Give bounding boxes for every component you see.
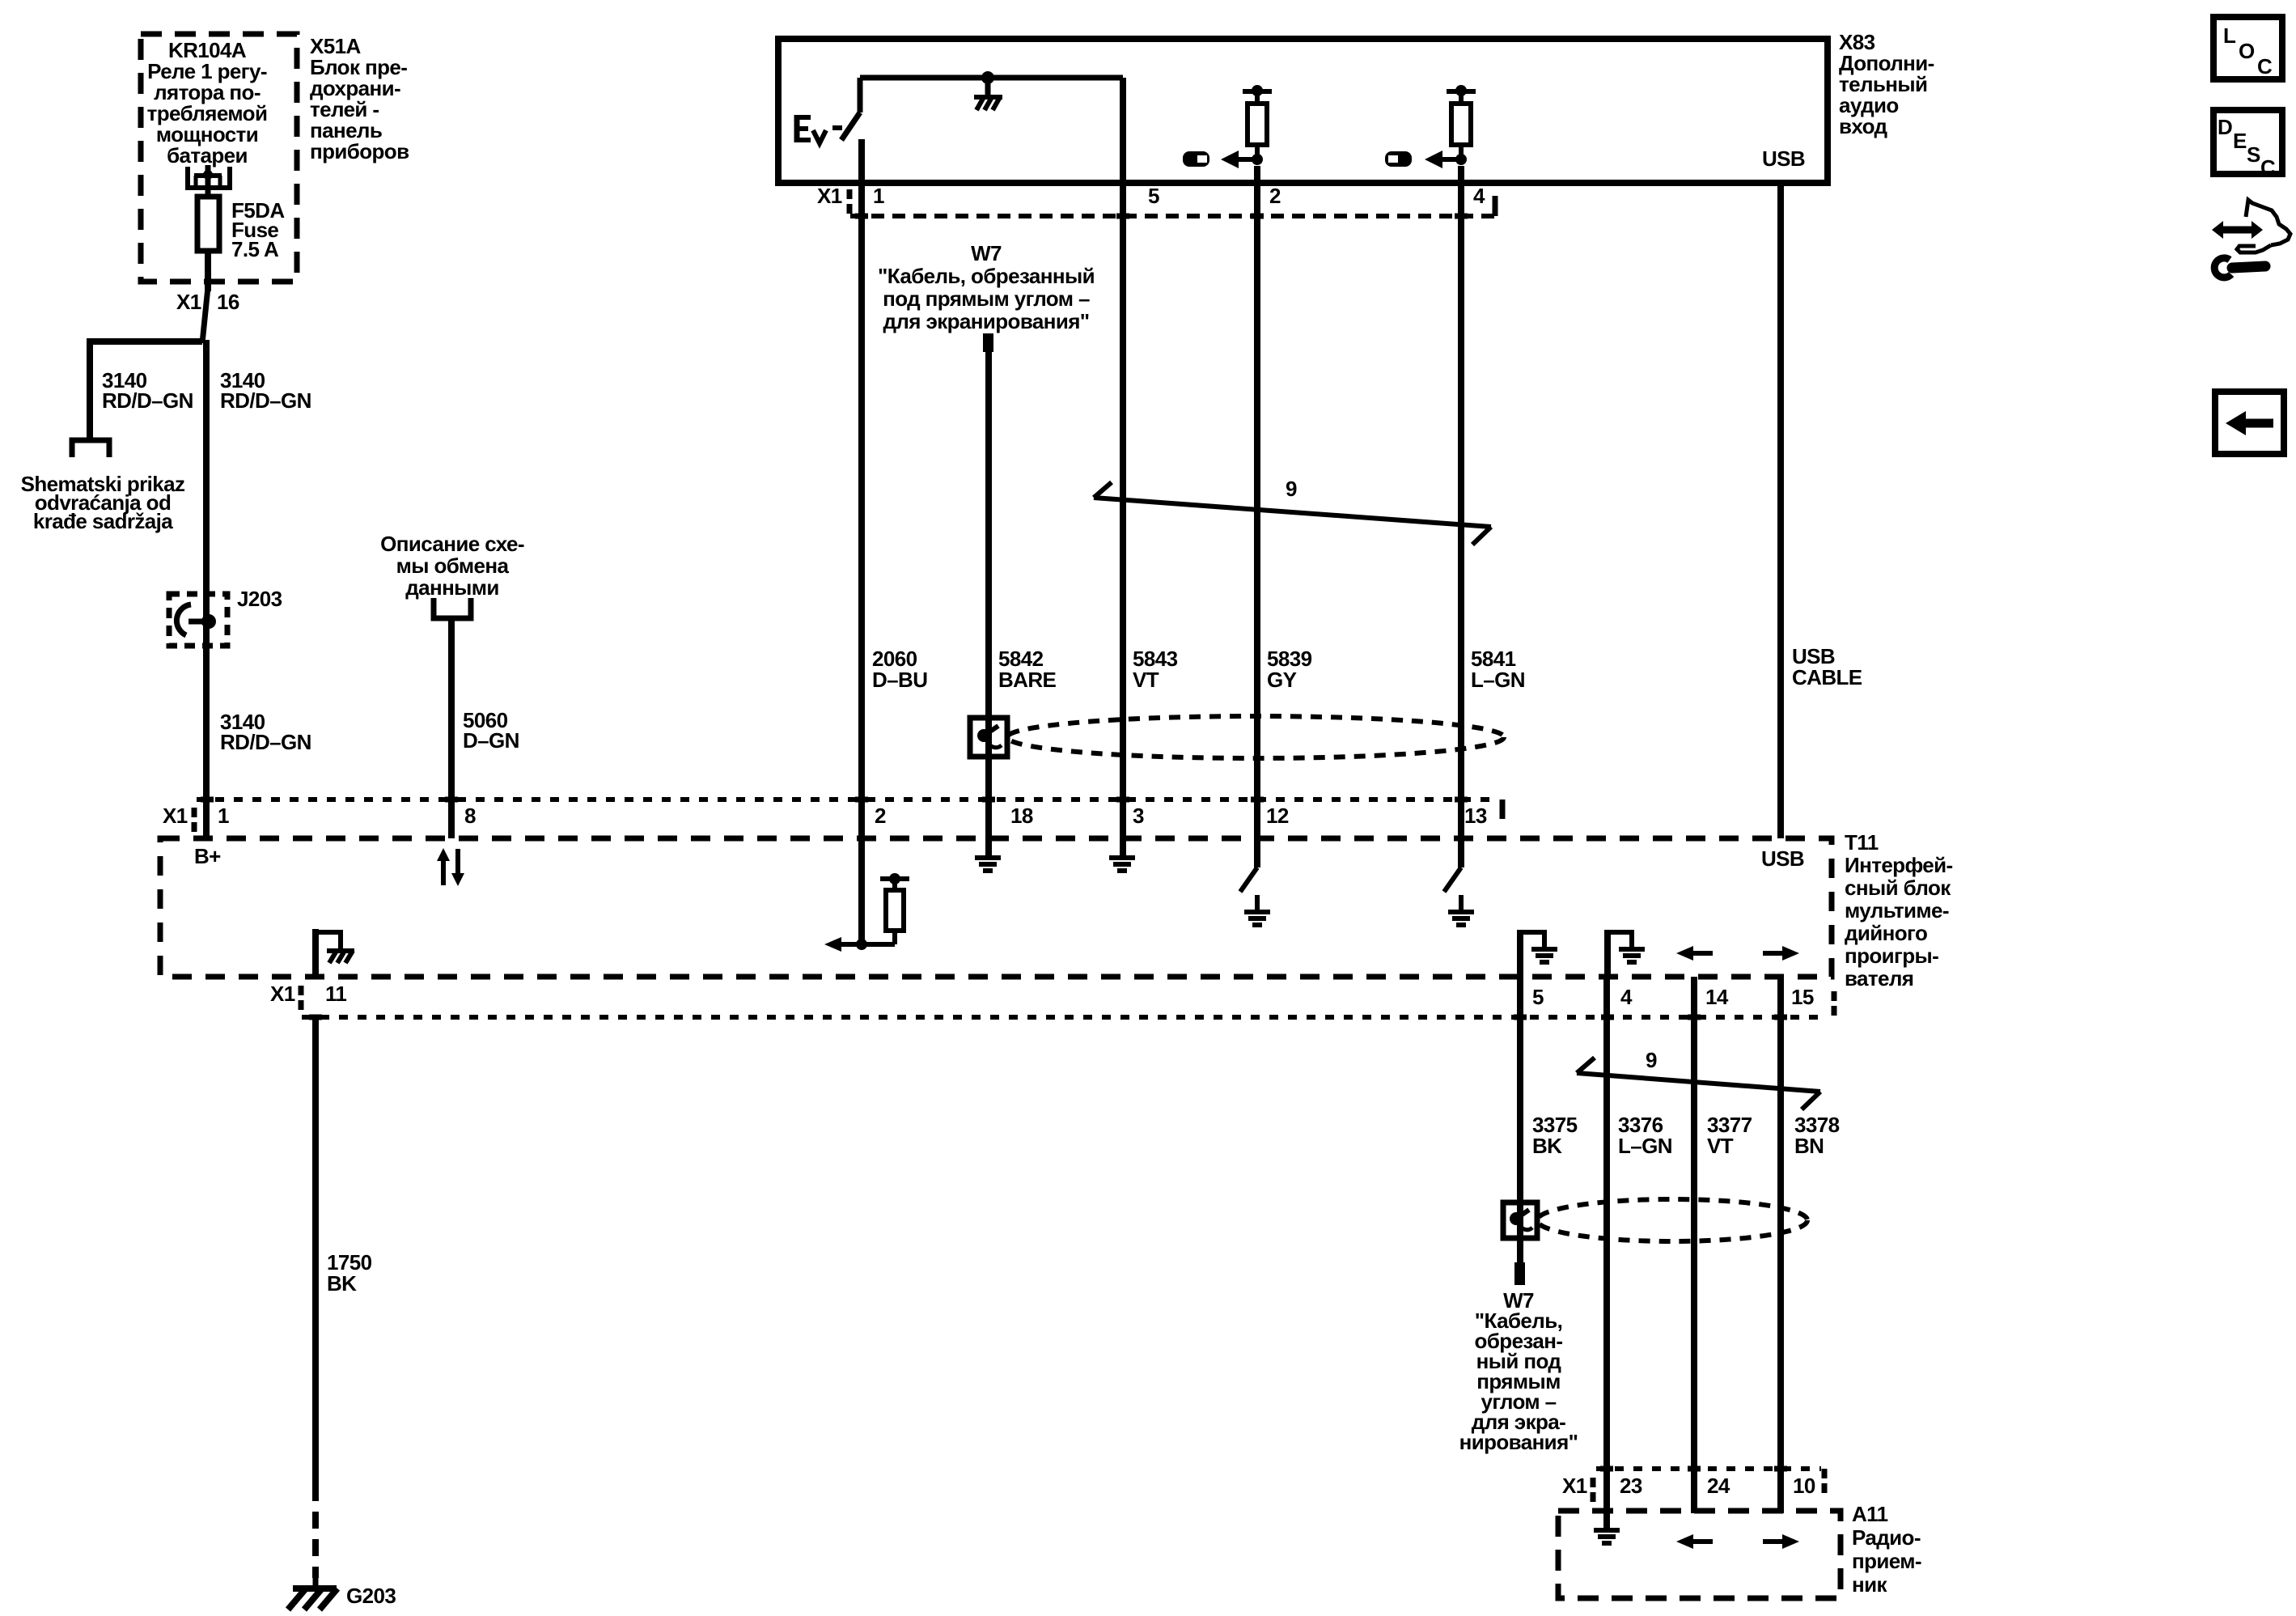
pin 15 label bottom [1791, 985, 1814, 1009]
resistor and output arrow below T11 pin 2 [824, 838, 909, 952]
terminator icon pin 4 [1385, 151, 1412, 167]
label 5843 VT [1133, 647, 1178, 692]
pin 3 label T11 [1133, 804, 1144, 828]
svg-text:CABLE: CABLE [1792, 665, 1862, 689]
svg-text:BK: BK [327, 1271, 357, 1296]
label 5839 GY [1267, 647, 1312, 692]
svg-text:D–BU: D–BU [872, 668, 927, 692]
left arrow inside T11 [1676, 946, 1713, 961]
pin 18 label T11 [1010, 804, 1033, 828]
label USB inside T11 [1761, 846, 1804, 871]
pin 23 label A11 [1620, 1474, 1642, 1498]
svg-text:для экранирования": для экранирования" [883, 309, 1089, 333]
auxiliary audio input X83 box [778, 39, 1828, 183]
label B+ [194, 844, 221, 868]
svg-text:USB: USB [1762, 146, 1805, 171]
svg-text:C: C [2257, 54, 2273, 78]
connector X1 of T11 top dotted line [197, 800, 1502, 819]
svg-text:USB: USB [1761, 846, 1804, 871]
svg-text:вход: вход [1839, 114, 1888, 138]
label 3140 RD/D-GN branch wire [102, 368, 193, 413]
media player interface module T11 dashed box [160, 838, 1832, 977]
label 5842 BARE [998, 647, 1057, 692]
wire 3377 VT (T11 pin14 to A11 pin24) [1691, 977, 1697, 1513]
chassis ground at T11 pin 11 [316, 929, 354, 977]
connector X1 label A11 [1562, 1474, 1593, 1502]
svg-text:4: 4 [1620, 985, 1633, 1009]
ground at A11 pin 23 [1594, 1513, 1620, 1543]
svg-text:Радио-: Радио- [1852, 1525, 1921, 1550]
ground at T11 pin 18 [975, 838, 1001, 871]
label X51A fuse block name [310, 34, 409, 163]
wire 5060 D-GN [448, 617, 455, 838]
pin 10 label A11 [1793, 1474, 1815, 1498]
svg-text:1: 1 [873, 184, 884, 208]
wire 3140 RD/D-GN branch to off-page [90, 341, 202, 438]
wire internal X83 horizontal [860, 75, 1123, 81]
right arrow inside A11 [1763, 1534, 1799, 1549]
shield ellipse lower [1537, 1199, 1807, 1241]
svg-text:X1: X1 [163, 804, 188, 828]
ground G203 [288, 1578, 337, 1610]
svg-text:W7: W7 [971, 241, 1002, 265]
svg-text:7.5 A: 7.5 A [231, 237, 279, 261]
wire W7 lower pigtail [1514, 1238, 1525, 1285]
wire: relay contact to fuse [205, 165, 211, 197]
shield connection square lower [1503, 1202, 1537, 1238]
wire: fuse to X1:16 [202, 251, 208, 343]
switch to ground at T11 pin 12 [1240, 838, 1270, 925]
svg-text:14: 14 [1705, 985, 1729, 1009]
resistor pull-up on X83 pin 2 [1221, 85, 1272, 168]
icon LOC box [2213, 17, 2282, 79]
wire 3140: X1:16 down to J203 and T11 [203, 340, 210, 838]
svg-text:BARE: BARE [998, 668, 1057, 692]
pin 1 label T11 [218, 804, 229, 828]
shield connection square upper [970, 718, 1007, 757]
harness 9 crossing lower [1577, 1058, 1820, 1109]
svg-text:9: 9 [1646, 1048, 1657, 1072]
svg-text:J203: J203 [237, 587, 282, 611]
label X83 Дополнительный аудио вход [1839, 30, 1934, 138]
svg-text:X1: X1 [176, 290, 201, 314]
splice J203 dashed box [169, 594, 227, 646]
svg-text:5: 5 [1148, 184, 1159, 208]
svg-text:10: 10 [1793, 1474, 1815, 1498]
svg-text:16: 16 [217, 290, 239, 314]
relay KR104A contact bar [194, 170, 222, 186]
pin 5 label X83 [1148, 184, 1159, 208]
splice J203 symbol [176, 604, 216, 635]
svg-text:BN: BN [1794, 1134, 1824, 1158]
label 3140 RD/D-GN main wire [220, 368, 311, 413]
label USB inside X83 [1762, 146, 1805, 171]
svg-text:2: 2 [1269, 184, 1281, 208]
svg-text:L: L [2223, 23, 2236, 48]
connector X1 of X83: label and bracket [817, 184, 849, 214]
label G203 [346, 1584, 396, 1608]
connector X1 label T11 bottom [270, 982, 301, 1010]
label 3376 L-GN [1618, 1113, 1672, 1158]
svg-text:RD/D–GN: RD/D–GN [220, 730, 311, 754]
ground at T11 pin 3 [1109, 838, 1135, 871]
svg-text:9: 9 [1286, 477, 1297, 501]
svg-text:L–GN: L–GN [1618, 1134, 1672, 1158]
pin 4 label X83 [1473, 184, 1485, 208]
label A11 Радиоприемник [1852, 1502, 1921, 1597]
resistor pull-up on X83 pin 4 [1425, 85, 1476, 168]
connector terminal bracket below relay [188, 167, 230, 188]
label 9 upper [1286, 477, 1297, 501]
svg-text:O: O [2239, 39, 2255, 63]
off-page connector (anti-theft schematic) [72, 440, 109, 457]
svg-text:данными: данными [405, 575, 499, 600]
pin 2 label T11 [875, 804, 886, 828]
pin 11 label [325, 982, 346, 1006]
connector X1 of X83 dashed line [850, 196, 1495, 216]
svg-text:D: D [2218, 115, 2232, 139]
svg-text:krađe sadržaja: krađe sadržaja [33, 509, 173, 533]
svg-text:C: C [2260, 155, 2276, 180]
fuse F5DA [197, 197, 219, 251]
wire USB cable (X83 to T11) [1777, 183, 1784, 838]
svg-text:15: 15 [1791, 985, 1814, 1009]
svg-text:11: 11 [325, 982, 346, 1006]
svg-text:GY: GY [1267, 668, 1297, 692]
label 1750 BK [327, 1250, 372, 1296]
label F5DA Fuse 7.5 A [231, 198, 285, 261]
pin 14 label bottom [1705, 985, 1729, 1009]
svg-text:Описание схе-: Описание схе- [380, 532, 524, 556]
label W7 shield cable top [878, 241, 1095, 333]
svg-text:3: 3 [1133, 804, 1144, 828]
svg-text:A11: A11 [1852, 1502, 1888, 1526]
svg-text:мультиме-: мультиме- [1845, 898, 1949, 923]
svg-text:мы обмена: мы обмена [396, 554, 510, 578]
pin 1 label X83 [873, 184, 884, 208]
svg-text:приборов: приборов [310, 139, 409, 163]
right arrow inside T11 [1763, 946, 1799, 961]
svg-text:2: 2 [875, 804, 886, 828]
svg-text:ник: ник [1852, 1572, 1887, 1597]
label 9 lower [1646, 1048, 1657, 1072]
radio A11 dashed box [1558, 1511, 1841, 1598]
svg-text:проигры-: проигры- [1845, 944, 1938, 968]
pin 2 label X83 [1269, 184, 1281, 208]
chassis ground inside X83 [974, 78, 1002, 110]
wire 1750 BK [312, 1017, 319, 1578]
pin 4 label bottom [1620, 985, 1633, 1009]
svg-text:прием-: прием- [1852, 1549, 1921, 1573]
label W7 lower [1459, 1288, 1578, 1454]
left arrow inside A11 [1676, 1534, 1713, 1549]
pin 5 label bottom [1532, 985, 1544, 1009]
label 2060 D-BU [872, 647, 927, 692]
svg-text:RD/D–GN: RD/D–GN [102, 388, 193, 413]
svg-text:12: 12 [1266, 804, 1289, 828]
wire 3376 L-GN (T11 pin4 to A11 pin23) [1603, 977, 1610, 1513]
wire W7 shield pigtail [983, 333, 993, 718]
icon back arrow box [2215, 392, 2284, 454]
label KR104A relay name [147, 38, 268, 168]
label 3377 VT [1707, 1113, 1752, 1158]
svg-text:дийного: дийного [1845, 921, 1927, 945]
svg-text:D–GN: D–GN [463, 728, 519, 753]
connector X1 of A11 dotted line [1596, 1469, 1824, 1493]
switch Ev inside X83 [794, 78, 860, 143]
svg-text:23: 23 [1620, 1474, 1642, 1498]
svg-text:5: 5 [1532, 985, 1544, 1009]
svg-text:S: S [2247, 142, 2260, 167]
wire 3375 BK (T11 pin5 to shield) [1517, 977, 1523, 1202]
svg-text:X1: X1 [1562, 1474, 1587, 1498]
svg-text:8: 8 [464, 804, 476, 828]
fuse block X51A dashed box [141, 34, 297, 282]
icon vehicle with double arrow and wrench [2212, 200, 2290, 278]
connector X1 label T11 top [163, 804, 194, 832]
ground at T11 pin 5 [1520, 930, 1557, 977]
label 3375 BK [1532, 1113, 1578, 1158]
svg-text:T11: T11 [1845, 830, 1879, 855]
label USB CABLE [1792, 644, 1862, 689]
svg-text:под прямым углом –: под прямым углом – [883, 286, 1090, 311]
switch to ground at T11 pin 13 [1444, 838, 1474, 925]
svg-text:VT: VT [1707, 1134, 1734, 1158]
label Описание схемы обмена данными [380, 532, 524, 600]
svg-text:18: 18 [1010, 804, 1033, 828]
svg-text:G203: G203 [346, 1584, 396, 1608]
svg-text:VT: VT [1133, 668, 1159, 692]
pin 13 label T11 [1464, 804, 1487, 828]
bidirectional arrows pin 8 [437, 848, 464, 886]
label Shematski prikaz [21, 472, 185, 533]
pin 8 label T11 [464, 804, 476, 828]
svg-text:X1: X1 [817, 184, 842, 208]
svg-text:батареи: батареи [167, 143, 248, 168]
svg-text:13: 13 [1464, 804, 1487, 828]
wire 5842 BARE (shield to T11 pin18) [985, 757, 992, 838]
harness 9 crossing upper [1094, 482, 1491, 545]
svg-text:4: 4 [1473, 184, 1485, 208]
off-page connector (data link description) [434, 598, 471, 618]
node junction dot X83 [981, 71, 994, 84]
wire 2060 D-BU (X83 pin1 to T11 pin2) [858, 139, 865, 838]
label 5060 D-GN [463, 708, 519, 753]
wire 5839 GY (X83 pin2 to T11 pin12) [1254, 166, 1260, 838]
svg-text:BK: BK [1532, 1134, 1562, 1158]
svg-text:вателя: вателя [1845, 966, 1913, 990]
svg-text:24: 24 [1707, 1474, 1730, 1498]
svg-text:"Кабель, обрезанный: "Кабель, обрезанный [878, 264, 1095, 288]
svg-text:RD/D–GN: RD/D–GN [220, 388, 311, 413]
svg-text:L–GN: L–GN [1471, 668, 1525, 692]
label 3378 BN [1794, 1113, 1840, 1158]
svg-text:X1: X1 [270, 982, 295, 1006]
svg-text:Интерфей-: Интерфей- [1845, 853, 1953, 877]
shield ellipse upper (cable 9 screen) [1007, 716, 1504, 758]
svg-text:E: E [2233, 129, 2247, 153]
ground at T11 pin 4 [1608, 930, 1645, 977]
pin 24 label A11 [1707, 1474, 1730, 1498]
pin 12 label T11 [1266, 804, 1289, 828]
connector X1 of T11 bottom dotted line [302, 991, 1834, 1017]
label T11 Интерфейсный блок [1845, 830, 1953, 990]
terminator icon pin 2 [1183, 151, 1209, 167]
label 3140 RD/D-GN below J203 [220, 710, 311, 754]
svg-text:1: 1 [218, 804, 229, 828]
connector X1 pin 16 labels [176, 290, 239, 314]
label J203 [237, 587, 282, 611]
svg-text:нирования": нирования" [1459, 1430, 1578, 1454]
label 5841 L-GN [1471, 647, 1525, 692]
wire 3378 BN (T11 pin15 to A11 pin10) [1777, 977, 1784, 1513]
wire 5841 L-GN (X83 pin4 to T11 pin13) [1458, 166, 1464, 838]
wire 5843 VT (X83 pin5 to T11 pin3) [1120, 78, 1126, 838]
svg-text:сный блок: сный блок [1845, 876, 1951, 900]
icon DESC box [2213, 110, 2282, 180]
svg-text:B+: B+ [194, 844, 221, 868]
